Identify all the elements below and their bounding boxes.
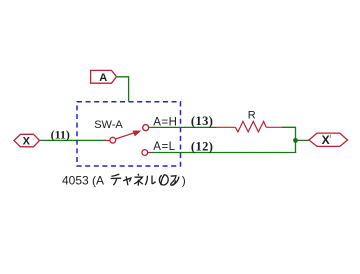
wire from resistor to junction [282,127,296,152]
katakana ru [145,176,155,186]
katakana ne [134,174,143,186]
svg-text:X: X [23,135,31,147]
svg-text:A=L: A=L [153,141,175,153]
net label X (input) [14,134,40,147]
svg-text:(12): (12) [191,140,213,154]
switch box (dashed) [77,102,181,166]
wire (13) from A=H contact to resistor [152,126,217,128]
hiragana mi [171,176,179,186]
katakana small ya [123,176,131,185]
svg-text:SW-A: SW-A [94,119,123,131]
katakana chi [111,174,122,185]
svg-text:4053 (A: 4053 (A [62,174,104,188]
svg-text:(11): (11) [51,128,70,142]
svg-text:(13): (13) [191,114,213,128]
switch SW-A [94,119,152,156]
caption 4053 (A channel only) [62,174,186,188]
svg-text:): ) [182,174,186,188]
svg-text:A: A [99,72,107,84]
resistor R [217,110,283,132]
hiragana no [159,175,168,186]
net label X' (output) [309,133,348,147]
svg-text:X: X [322,133,330,147]
net label A (control) [91,70,117,84]
wire (11) from input label to switch pole [40,139,107,141]
svg-text:A=H: A=H [153,116,177,128]
wire junction to output label [296,139,310,141]
wire from A label into switch box [117,77,129,102]
svg-text:R: R [248,110,256,122]
wire (12) from A=L contact to junction column [152,152,296,154]
junction dot [293,138,298,143]
